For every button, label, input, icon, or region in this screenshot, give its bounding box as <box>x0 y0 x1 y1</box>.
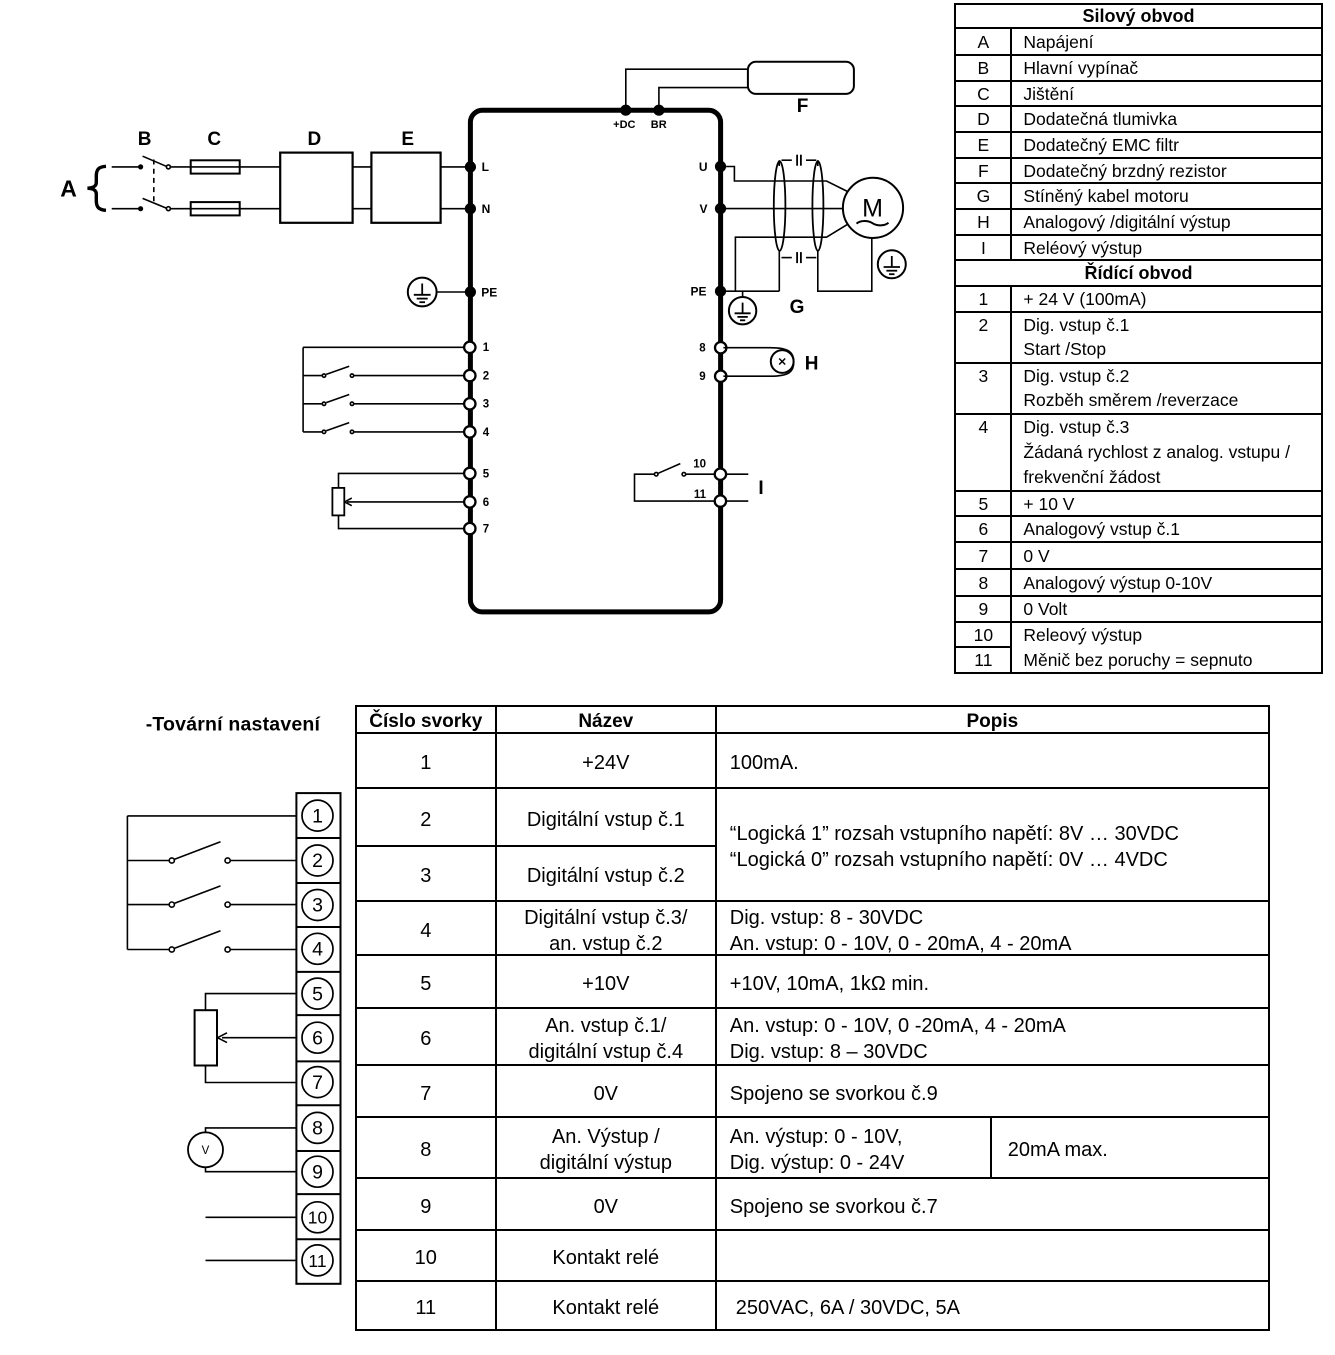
terminal circles 1-11 <box>302 800 333 1276</box>
svg-text:11: 11 <box>694 489 707 501</box>
wiper wire terminal 6 (mini) <box>222 1037 296 1039</box>
ground PE left <box>408 278 437 307</box>
svg-text:L: L <box>482 160 489 174</box>
terminal BR <box>653 105 664 116</box>
svg-text:PE: PE <box>690 285 706 299</box>
ground motor <box>878 250 906 278</box>
wire +DC to F <box>626 69 748 107</box>
svg-text:4: 4 <box>312 939 323 961</box>
svg-text:5: 5 <box>483 468 490 480</box>
svg-text:6: 6 <box>483 497 489 509</box>
switch for terminal 3 <box>303 395 464 406</box>
switch B (main switch, 2-pole) <box>138 129 171 211</box>
wire terminal 5 to potentiometer (mini) <box>206 994 297 1011</box>
relay contact I <box>635 464 715 502</box>
wire BR to F <box>659 88 748 107</box>
switch to terminal 3 (mini) <box>127 886 296 907</box>
wire ground to PE <box>437 291 468 293</box>
switch bank bus (terminals 1-4) <box>302 347 304 432</box>
svg-text:10: 10 <box>308 1208 328 1228</box>
terminal 10 <box>715 469 726 480</box>
svg-text:8: 8 <box>312 1118 323 1140</box>
svg-text:2: 2 <box>312 850 323 872</box>
wire E to N <box>441 208 468 210</box>
switch for terminal 2 <box>303 366 464 377</box>
shielded cable G ellipse 2 <box>812 161 823 251</box>
node A supply brace <box>88 166 107 210</box>
svg-text:1: 1 <box>312 805 323 827</box>
wire terminal 8 to voltmeter <box>206 1128 297 1132</box>
wire PE branch to motor <box>735 224 847 291</box>
switch to terminal 4 (mini) <box>127 931 296 952</box>
terminal L <box>465 161 476 172</box>
wire to terminal 1 (mini) <box>127 815 296 817</box>
wire D to E top <box>353 166 372 168</box>
ground below PE right <box>729 291 756 324</box>
fuse C top <box>191 160 240 173</box>
svg-text:N: N <box>482 202 491 216</box>
svg-text:I: I <box>758 478 763 499</box>
svg-text:7: 7 <box>312 1072 323 1094</box>
wire D to E bottom <box>353 208 372 210</box>
braking resistor F <box>748 62 854 94</box>
svg-text:9: 9 <box>699 371 705 383</box>
potentiometer (main) <box>332 488 344 516</box>
terminal N <box>465 203 476 214</box>
voltmeter <box>188 1132 223 1167</box>
svg-text:V: V <box>699 202 707 216</box>
fuse C bottom <box>191 202 240 215</box>
terminal strip <box>296 793 340 1284</box>
svg-text:M: M <box>862 194 883 222</box>
svg-text:A: A <box>60 176 77 202</box>
wire potentiometer to terminal 7 (mini) <box>206 1066 297 1083</box>
wire PE right <box>723 290 779 292</box>
svg-text:3: 3 <box>483 399 489 411</box>
shield ground left <box>778 251 780 291</box>
svg-text:C: C <box>207 129 221 150</box>
motor M <box>843 178 903 238</box>
terminal 8 <box>715 342 726 353</box>
svg-text:E: E <box>401 129 414 150</box>
switch for terminal 4 <box>303 423 464 434</box>
svg-text:B: B <box>138 129 152 150</box>
terminal PE left <box>465 286 476 297</box>
terminal 11 <box>715 495 726 506</box>
terminals 1-7 <box>464 342 475 535</box>
svg-text:11: 11 <box>308 1251 326 1271</box>
terminal V <box>715 203 726 214</box>
wire to terminal 11 (mini) <box>206 1259 297 1261</box>
EMC filter E <box>371 153 440 223</box>
bus wire (mini) <box>126 816 128 950</box>
wire from 11 <box>726 500 748 502</box>
wire U to motor <box>723 167 848 192</box>
wire B to C top <box>170 166 280 168</box>
output H indicator <box>771 350 794 373</box>
svg-text:10: 10 <box>693 459 706 471</box>
svg-text:4: 4 <box>483 427 490 439</box>
svg-text:G: G <box>790 297 805 318</box>
svg-text:8: 8 <box>699 343 706 355</box>
wire A top <box>112 166 139 168</box>
wire terminal 5 to potentiometer <box>339 473 465 488</box>
wire to terminal 10 (mini) <box>206 1216 297 1218</box>
wire A bottom <box>112 208 139 210</box>
svg-text:7: 7 <box>483 524 489 536</box>
svg-text:6: 6 <box>312 1027 323 1049</box>
svg-text:F: F <box>797 96 809 117</box>
shielded cable G ellipse 1 <box>774 161 786 251</box>
terminal PE right <box>715 286 726 297</box>
shield capacitive bond bottom <box>782 252 817 263</box>
wire V to motor <box>723 208 843 210</box>
svg-text:+DC: +DC <box>613 119 635 131</box>
terminal U <box>715 161 726 172</box>
shield ground right <box>818 238 872 291</box>
wire E to L <box>441 166 468 168</box>
wire B to C bottom <box>170 208 280 210</box>
svg-text:2: 2 <box>483 371 489 383</box>
svg-text:-Tovární nastavení: -Tovární nastavení <box>146 714 321 736</box>
svg-text:5: 5 <box>312 983 323 1005</box>
shield capacitive bond top <box>779 155 818 166</box>
potentiometer (mini) <box>195 1010 217 1065</box>
inverter box <box>470 110 720 612</box>
terminal +DC <box>620 105 631 116</box>
svg-text:H: H <box>805 353 819 374</box>
svg-text:3: 3 <box>312 895 323 917</box>
wire potentiometer to terminal 7 <box>339 515 465 528</box>
wire voltmeter to terminal 9 <box>206 1167 297 1171</box>
terminal 9 <box>715 371 726 382</box>
svg-text:1: 1 <box>483 342 490 354</box>
output H loop <box>723 348 793 377</box>
wire from 10 <box>726 473 748 475</box>
choke D <box>280 153 352 223</box>
svg-text:U: U <box>699 160 708 174</box>
svg-text:BR: BR <box>651 119 667 131</box>
switch to terminal 2 (mini) <box>127 842 296 863</box>
svg-text:D: D <box>308 129 322 150</box>
svg-text:V: V <box>202 1145 210 1157</box>
wire to terminal 1 <box>303 346 464 348</box>
svg-text:PE: PE <box>481 285 497 299</box>
svg-text:9: 9 <box>312 1161 323 1183</box>
wiper wire terminal 6 <box>347 501 464 503</box>
